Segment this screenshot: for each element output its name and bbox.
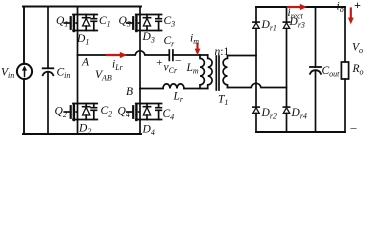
arrow irect (red) <box>288 4 307 10</box>
wire left rail lower <box>23 79 25 134</box>
svg-text:–: – <box>350 120 358 134</box>
svg-text:VAB: VAB <box>95 69 112 83</box>
svg-text:D3: D3 <box>142 31 155 45</box>
svg-text:Vo: Vo <box>352 42 363 56</box>
wire rectifier right leg middle <box>286 28 288 107</box>
wire Q3 to node B <box>139 31 141 89</box>
capacitor C3 <box>156 15 162 31</box>
capacitor C4 <box>156 104 162 120</box>
source Vin <box>17 64 32 79</box>
svg-text:D4: D4 <box>142 124 155 138</box>
svg-text:io: io <box>337 1 344 15</box>
wire left rail upper <box>23 7 25 64</box>
wire Cr to Lm/primary <box>173 54 208 56</box>
svg-text:Dr1: Dr1 <box>261 19 277 33</box>
wire secondary bottom with hop over Dr leg <box>228 83 287 87</box>
wire rectifier right leg bottom <box>286 113 288 132</box>
wire Q4 to bottom rail <box>139 120 141 135</box>
svg-text:T1: T1 <box>218 94 228 108</box>
resistor Ro leg upper <box>344 7 346 62</box>
wire Cout leg lower <box>315 70 317 132</box>
arrow iLr (red) <box>107 52 127 58</box>
transformer T1 core <box>216 56 219 90</box>
diode Dr1 <box>253 22 259 28</box>
svg-text:Q4: Q4 <box>118 106 130 120</box>
wire Q1 to node A <box>77 31 79 56</box>
rectifier right leg top <box>286 7 288 22</box>
svg-text:Lm: Lm <box>186 62 199 76</box>
arrow im (red) <box>195 44 201 55</box>
diode Dr4 <box>283 107 289 113</box>
transistor Q2 <box>64 55 97 120</box>
transformer T1 secondary winding <box>223 56 227 88</box>
svg-text:im: im <box>190 33 199 47</box>
svg-text:iLr: iLr <box>112 59 124 73</box>
wire secondary top <box>228 55 257 57</box>
transistor Q3 <box>127 7 162 32</box>
svg-text:C1: C1 <box>99 15 111 29</box>
diode Dr2 <box>253 107 259 113</box>
wire primary top rail <box>23 6 141 8</box>
rectifier left leg top <box>255 7 257 22</box>
svg-text:D2: D2 <box>78 123 91 137</box>
wire secondary bottom rail <box>256 131 345 133</box>
svg-text:Lr: Lr <box>173 91 184 105</box>
inductor Lm <box>200 55 204 89</box>
wire rectifier left leg bottom <box>255 113 257 132</box>
diode D2 <box>83 104 90 120</box>
wire rectifier left leg middle <box>255 28 257 107</box>
wire secondary top rail <box>256 6 345 8</box>
node B wire <box>140 88 163 90</box>
svg-text:Q3: Q3 <box>119 15 131 29</box>
svg-text:Ro: Ro <box>352 63 364 77</box>
svg-text:C2: C2 <box>101 105 113 119</box>
svg-text:Cr: Cr <box>164 35 176 49</box>
capacitor Cr <box>169 50 173 60</box>
transformer T1 primary winding <box>208 55 212 89</box>
diode D4 <box>143 104 150 120</box>
capacitor C1 <box>91 15 97 31</box>
resistor Ro <box>341 62 348 79</box>
capacitor Cin <box>43 68 54 75</box>
inductor Lr <box>163 84 184 89</box>
svg-text:C4: C4 <box>163 108 175 122</box>
arrow io (red) <box>348 9 354 25</box>
capacitor Cout <box>310 67 321 74</box>
diode D3 <box>143 15 150 31</box>
svg-text:A: A <box>81 57 90 69</box>
svg-text:Cin: Cin <box>57 67 71 81</box>
transistor Q4 <box>127 89 162 121</box>
wire Cin leg upper <box>47 7 49 69</box>
svg-text:+: + <box>354 0 361 12</box>
wire primary bottom rail <box>23 133 141 135</box>
svg-text:Cout: Cout <box>322 65 341 79</box>
diode Dr3 <box>283 22 289 28</box>
svg-text:Q1: Q1 <box>56 15 68 29</box>
wire Q2 to bottom rail <box>77 120 79 135</box>
svg-text:Dr2: Dr2 <box>261 107 277 121</box>
svg-text:Q2: Q2 <box>55 106 67 120</box>
svg-text:B: B <box>126 86 133 98</box>
capacitor C2 <box>91 104 97 120</box>
wire Lr to primary <box>184 88 208 90</box>
capacitor Cout leg upper <box>315 7 317 67</box>
wire Cin leg lower <box>47 72 49 134</box>
wire Ro leg lower <box>344 79 346 132</box>
svg-text:Dr4: Dr4 <box>291 107 307 121</box>
transistor Q1 <box>64 7 97 32</box>
svg-text:C3: C3 <box>164 15 176 29</box>
svg-text:Vin: Vin <box>1 67 14 81</box>
node A wire with hop over Q3 leg <box>78 51 169 55</box>
svg-text:+: + <box>156 57 163 69</box>
diode D1 <box>83 15 90 31</box>
